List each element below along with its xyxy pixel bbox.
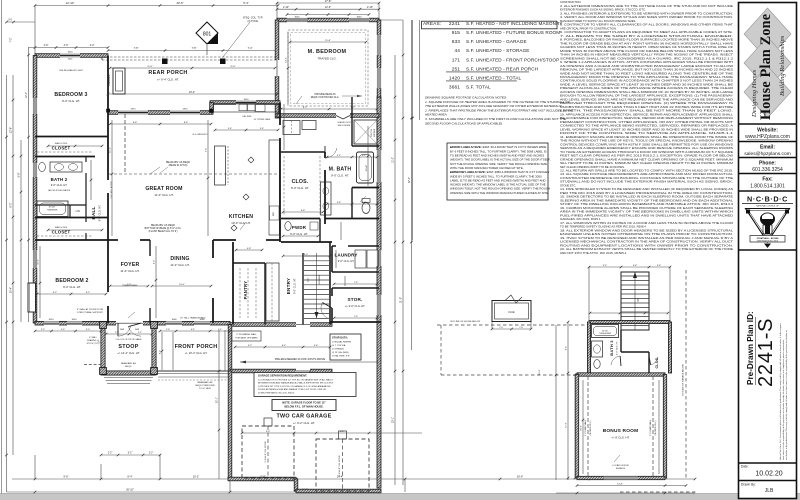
- svg-text:20'-1": 20'-1": [217, 397, 219, 403]
- svg-text:NOTE: GARAGE FLOOR TO BE 12": NOTE: GARAGE FLOOR TO BE 12": [282, 401, 326, 405]
- svg-text:4050: 4050: [68, 52, 74, 54]
- svg-text:16. CARBON MONOXIDE ALARMS SHA: 16. CARBON MONOXIDE ALARMS SHALL BE PROV…: [560, 206, 733, 210]
- storage west wall: [331, 288, 333, 322]
- entry wing west wall / porch side: [228, 325, 232, 372]
- svg-text:TRAYED CLG.: TRAYED CLG.: [317, 57, 336, 61]
- dimension line: [588, 267, 590, 322]
- closet2 dim: [47, 229, 104, 232]
- pwdr dim h: [282, 235, 320, 238]
- svg-text:12'-6": 12'-6": [10, 127, 13, 133]
- svg-text:5'-4": 5'-4": [260, 128, 265, 130]
- garage separation requirement box: [254, 373, 356, 397]
- svg-text:12'-10": 12'-10": [66, 1, 75, 5]
- wall: [577, 476, 665, 479]
- bedroom 3 north exterior wall: [35, 54, 108, 58]
- svg-text:SCREENING SHALL NOT BE CONSIDE: SCREENING SHALL NOT BE CONSIDERED AS A G…: [560, 56, 734, 60]
- svg-text:12'-0": 12'-0": [325, 6, 331, 9]
- svg-text:9'-0"x8'-0" O.H. DOOR: 9'-0"x8'-0" O.H. DOOR: [339, 455, 341, 476]
- svg-text:9'-0": 9'-0": [266, 431, 271, 433]
- svg-text:PWDR: PWDR: [292, 225, 307, 230]
- great room upper dim: [109, 123, 213, 126]
- storage door opening: [331, 296, 333, 308]
- porch wall lower dim chain: [159, 330, 232, 333]
- svg-text:13. ALL SQUARE FOOTAGE MEASURE: 13. ALL SQUARE FOOTAGE MEASUREMENTS ARE …: [560, 172, 734, 176]
- mcloset dim: [283, 104, 286, 150]
- shower south wall: [352, 145, 379, 147]
- porch column 8x8: [162, 59, 168, 65]
- svg-text:JLB: JLB: [765, 488, 774, 494]
- dining opening to kitchen hall: [212, 258, 215, 298]
- svg-text:2241-S: 2241-S: [755, 318, 777, 387]
- interior wall: [331, 246, 333, 272]
- svg-text:3'-8": 3'-8": [362, 202, 367, 204]
- svg-text:TUB/SHWR: TUB/SHWR: [47, 210, 58, 212]
- svg-text:STOOP (TYP): STOOP (TYP): [87, 343, 100, 345]
- svg-text:15'-8": 15'-8": [325, 40, 331, 42]
- svg-text:STORY OF THE DWELLING INCLUDIN: STORY OF THE DWELLING INCLUDING BASEMENT…: [560, 202, 734, 206]
- svg-text:+/- 12'-4" CLG. HT.: +/- 12'-4" CLG. HT.: [117, 351, 140, 355]
- pantry west wall: [232, 242, 234, 325]
- svg-text:37'-4": 37'-4": [408, 177, 411, 183]
- svg-text:4'-2": 4'-2": [90, 44, 95, 47]
- right dim chain 3: [410, 20, 413, 350]
- M bedroom south door opening: [336, 113, 350, 118]
- svg-text:PERMANENT CONSTRUCTION, OTHER: PERMANENT CONSTRUCTION, OTHER APPLIANCES…: [560, 120, 733, 124]
- svg-text:12'-6": 12'-6": [38, 259, 40, 265]
- svg-text:BEDROOM 3: BEDROOM 3: [54, 92, 87, 98]
- M bedroom east exterior wall: [377, 20, 381, 97]
- svg-text:ACCESS OPENING DIMENSIONS SHAL: ACCESS OPENING DIMENSIONS SHALL BE A MIN…: [560, 90, 733, 94]
- svg-text:8'-6": 8'-6": [566, 346, 568, 351]
- entry cabinet bench: [266, 263, 279, 321]
- svg-text:30'-0": 30'-0": [517, 476, 523, 479]
- stoop west wall: [101, 323, 105, 375]
- storage north wall: [332, 287, 379, 289]
- mbedroom interior dim v: [287, 32, 290, 104]
- ceiling fixture diamonds: [248, 157, 254, 163]
- svg-text:13'-6": 13'-6": [286, 57, 288, 63]
- svg-text:Drawn By:: Drawn By:: [741, 483, 756, 487]
- wall: [577, 373, 665, 376]
- wall: [668, 322, 671, 373]
- svg-text:20'-6": 20'-6": [176, 1, 183, 5]
- svg-text:REMOVED THROUGH THE REQUIRED O: REMOVED THROUGH THE REQUIRED OPENING. (2…: [560, 101, 733, 105]
- svg-text:CONSTRUCTION.: CONSTRUCTION.: [560, 0, 581, 4]
- garage floor note box: [272, 400, 336, 411]
- svg-text:House Plan Zone, LLC. has revi: House Plan Zone, LLC. has reviewed plans…: [779, 323, 782, 460]
- svg-text:SHELF & ROD: SHELF & ROD: [55, 143, 68, 145]
- svg-text:2970: 2970: [183, 109, 189, 111]
- svg-text:FIREPLACE: FIREPLACE: [108, 74, 111, 86]
- svg-text:7'-4": 7'-4": [248, 47, 253, 50]
- svg-text:7'-6": 7'-6": [354, 316, 358, 318]
- door and window labels note box: [447, 143, 548, 200]
- svg-text:4'-8": 4'-8": [633, 265, 638, 267]
- svg-text:2970: 2970: [131, 109, 137, 111]
- NCBDC triangle emblem: [746, 209, 790, 243]
- bedroom3 top sub-dim: [28, 46, 109, 49]
- svg-text:PROVIDE BEAM AS: PROVIDE BEAM AS: [314, 93, 336, 96]
- section marker 801 diamond: [196, 22, 218, 44]
- svg-text:14 EQUAL RISERS: 14 EQUAL RISERS: [332, 341, 352, 344]
- M bedroom east window: [377, 35, 382, 55]
- svg-text:2'-2": 2'-2": [138, 332, 142, 334]
- svg-text:CONTROL DEVICES COMPLYING WITH: CONTROL DEVICES COMPLYING WITH ASTM F 20…: [560, 142, 733, 146]
- NCBDC name box: [750, 236, 785, 243]
- bath3 tub: [592, 325, 619, 338]
- bonus knee wall dashed left: [587, 376, 589, 477]
- svg-text:3068: 3068: [120, 329, 124, 331]
- flue box: [492, 301, 531, 322]
- stoop south wall: [103, 371, 154, 375]
- svg-text:+/- 9'-4" CLG. HT.: +/- 9'-4" CLG. HT.: [157, 78, 179, 82]
- interior wall: [621, 351, 649, 353]
- svg-text:Email:: Email:: [760, 145, 775, 151]
- svg-text:BEAM ABV. AS: BEAM ABV. AS: [121, 362, 136, 365]
- kitchen east / m.closet west wall: [279, 103, 281, 243]
- M bedroom east window: [377, 68, 382, 88]
- svg-text:(BEAM IN ATTIC): (BEAM IN ATTIC): [169, 164, 188, 167]
- svg-text:STRUCTURAL SUPPORT: STRUCTURAL SUPPORT: [77, 311, 103, 314]
- svg-text:6" WALL AT POCKET FOR: 6" WALL AT POCKET FOR: [77, 308, 104, 311]
- svg-text:HALL: HALL: [91, 206, 96, 219]
- wall: [575, 375, 578, 479]
- entry bottom dim: [234, 346, 332, 349]
- dimension line: [333, 317, 379, 320]
- m.closet east / m.bath west wall: [324, 152, 326, 224]
- svg-text:16'-0": 16'-0": [539, 369, 541, 375]
- right dim chain 4: [411, 20, 414, 240]
- svg-text:2'-2": 2'-2": [108, 453, 113, 455]
- garage north wall: [230, 369, 332, 373]
- svg-text:GARAGE SEPARATION REQUIREMENT:: GARAGE SEPARATION REQUIREMENT:: [258, 374, 307, 378]
- svg-text:3'-0": 3'-0": [41, 329, 45, 331]
- svg-text:M. BEDROOM: M. BEDROOM: [308, 49, 347, 55]
- stoop corner columns: [100, 322, 107, 329]
- bath3 vanity: [592, 341, 603, 357]
- svg-text:5. CONTRACTOR TO VERIFY ALL CL: 5. CONTRACTOR TO VERIFY ALL CLEARANCES O…: [560, 23, 733, 27]
- svg-text:9'-0" CLG. HT.: 9'-0" CLG. HT.: [294, 278, 297, 294]
- svg-text:5'-0" KNEE WALL: 5'-0" KNEE WALL: [649, 419, 652, 436]
- door: [611, 356, 621, 366]
- interior wall: [648, 352, 650, 373]
- svg-text:BETWEEN HOUSE AND GARAGE AND A: BETWEEN HOUSE AND GARAGE AND ALL WALLS S…: [258, 382, 334, 385]
- svg-text:4. VERIFY ALL DOOR AND WINDOW: 4. VERIFY ALL DOOR AND WINDOW STYLES AND…: [560, 15, 733, 19]
- svg-text:THAN 34 INCHES IN HEIGHT MEASU: THAN 34 INCHES IN HEIGHT MEASURED VERTIC…: [560, 53, 733, 57]
- svg-text:THE FLOOR OR GRADE BELOW AT AN: THE FLOOR OR GRADE BELOW AT ANY POINT WI…: [560, 41, 733, 45]
- kitchen south wall: [213, 239, 280, 241]
- svg-text:TO HAVE AN EXTERIOR ACCESS THR: TO HAVE AN EXTERIOR ACCESS THROUGH A DOO…: [560, 150, 733, 154]
- svg-text:DINING: DINING: [170, 256, 189, 262]
- bedroom 2 front window 3050: [44, 321, 59, 326]
- staircase treads: [304, 253, 329, 318]
- svg-text:4'-6": 4'-6": [61, 329, 65, 331]
- svg-text:FOR BATH UPSTAIRS: FOR BATH UPSTAIRS: [235, 337, 258, 340]
- svg-text:8'-8": 8'-8": [133, 122, 138, 124]
- svg-text:GREAT ROOM: GREAT ROOM: [145, 186, 182, 192]
- svg-text:3'-6": 3'-6": [44, 44, 49, 47]
- great room interior dim: [111, 120, 114, 236]
- svg-text:9'-0" CLG. HT.: 9'-0" CLG. HT.: [338, 259, 355, 263]
- svg-text:TO 10' HDR.: TO 10' HDR.: [199, 388, 212, 390]
- svg-text:19. HVAC SYSTEM TO BE DESIGNED: 19. HVAC SYSTEM TO BE DESIGNED AND INSTA…: [560, 236, 733, 240]
- top dim extension: [378, 3, 380, 20]
- bath2 vanity sinks: [50, 162, 82, 172]
- svg-text:3050: 3050: [357, 17, 363, 19]
- interior wall: [302, 253, 304, 325]
- svg-text:915: 915: [452, 30, 461, 36]
- m.bath garden tub east window: [377, 150, 382, 182]
- svg-text:AN OPENING AND A CLEAR AND UNO: AN OPENING AND A CLEAR AND UNOBSTRUCTED …: [560, 64, 734, 68]
- svg-text:ENGINEER UNLESS NOTED OTHERWIS: ENGINEER UNLESS NOTED OTHERWISE ON THE P…: [560, 232, 733, 236]
- svg-text:9'-0" CLG. HT.: 9'-0" CLG. HT.: [617, 341, 619, 355]
- pantry shelves dashed: [239, 268, 241, 318]
- plumbing wall note box: [232, 331, 261, 341]
- svg-text:11'-2": 11'-2": [110, 147, 112, 153]
- svg-text:REAR PORCH: REAR PORCH: [148, 70, 187, 76]
- foyer-dining column wall lower: [149, 308, 151, 323]
- svg-text:Building Relationships: Building Relationships: [779, 35, 786, 96]
- svg-text:5'-2": 5'-2": [128, 453, 133, 455]
- svg-text:PRESENT ALONG ALL SIDES OF THE: PRESENT ALONG ALL SIDES OF THE APPLIANCE…: [560, 86, 733, 90]
- svg-text:9'-0" CLG. HT.: 9'-0" CLG. HT.: [291, 186, 309, 190]
- svg-text:5'-4": 5'-4": [603, 265, 608, 267]
- foyer cased opening: [118, 239, 140, 242]
- svg-text:4" PLUMBING WALL: 4" PLUMBING WALL: [236, 333, 257, 336]
- door: [649, 356, 658, 365]
- bottom dim ext: [295, 484, 297, 492]
- dimension line: [109, 67, 277, 70]
- porch dim v: [161, 332, 164, 370]
- svg-text:LEVEL WORKING SPACE AT LEAST 3: LEVEL WORKING SPACE AT LEAST 30 INCHES D…: [560, 127, 733, 131]
- svg-text:AND NOT INTO THE ATTIC. IRC 20: AND NOT INTO THE ATTIC. IRC 2015, M1505.…: [560, 251, 627, 255]
- outline of garage below dashed - right: [685, 270, 687, 480]
- west exterior wall: [33, 56, 37, 324]
- kitchen-great room wall jog: [210, 103, 214, 113]
- svg-text:11'-8": 11'-8": [230, 66, 235, 68]
- garage entry door swing: [310, 371, 322, 383]
- m.closet door opening: [279, 125, 282, 138]
- svg-text:2'-10": 2'-10": [283, 6, 289, 9]
- tub dim: [367, 126, 370, 186]
- svg-text:10'-4": 10'-4": [10, 287, 13, 293]
- svg-text:STAIR DATA:: STAIR DATA:: [332, 336, 348, 340]
- NCBDC bottom tick: [764, 244, 771, 249]
- svg-text:PASSAGEWAY FROM THE OPENING TO: PASSAGEWAY FROM THE OPENING TO THE APPLI…: [560, 75, 733, 79]
- garage bays dim: [241, 432, 422, 435]
- svg-text:9'-0" CLG. HT.: 9'-0" CLG. HT.: [98, 204, 102, 221]
- svg-text:CLOS.: CLOS.: [292, 179, 309, 185]
- date box: [739, 462, 797, 464]
- closet2 rod dashed: [37, 235, 92, 237]
- dimension line: [107, 93, 279, 96]
- svg-text:11'-0" CLG. HT.: 11'-0" CLG. HT.: [120, 269, 139, 273]
- svg-text:CONTINUOUS SOLID FLOORING IN A: CONTINUOUS SOLID FLOORING IN ACCORDANCE …: [560, 79, 733, 83]
- svg-text:20. ALL BATHROOM EXHAUST VENTS: 20. ALL BATHROOM EXHAUST VENTS SHALL BE …: [560, 247, 733, 251]
- great room north window 2970 pair: [170, 110, 200, 115]
- svg-text:3'-0": 3'-0": [86, 329, 90, 331]
- column label leader: [223, 22, 250, 57]
- left dim chain 4: [27, 48, 30, 323]
- porch dim v2: [172, 332, 174, 370]
- M bedroom north exterior wall: [277, 18, 379, 22]
- svg-text:7'-5": 7'-5": [134, 47, 139, 50]
- M bedroom top dim chain 1: [276, 2, 381, 5]
- svg-text:251: 251: [452, 66, 461, 72]
- svg-text:1420: 1420: [449, 75, 460, 81]
- svg-text:14 RISERS: 14 RISERS: [319, 274, 321, 285]
- svg-text:STOR.: STOR.: [348, 297, 363, 302]
- svg-text:7'-6": 7'-6": [354, 282, 359, 284]
- svg-text:3050: 3050: [72, 319, 78, 321]
- svg-text:15. SMOKE DETECTORS TO BE INST: 15. SMOKE DETECTORS TO BE INSTALLED IN E…: [560, 195, 733, 199]
- great room north window 2970 pair: [118, 110, 148, 115]
- svg-text:9'-0" CLG. HT.: 9'-0" CLG. HT.: [63, 285, 81, 289]
- svg-text:SHOWER: SHOWER: [374, 128, 376, 137]
- svg-text:BATH 3: BATH 3: [609, 340, 614, 356]
- svg-text:+/- 8' CLG. HT.: +/- 8' CLG. HT.: [611, 436, 630, 440]
- m.bedroom tray ceiling dashed rect: [288, 30, 368, 106]
- fold mark arrows: [738, 21, 746, 31]
- dining front window 3068: [194, 321, 210, 326]
- laundry east window: [377, 250, 382, 266]
- svg-text:NET CLEAR OPENING WIDTH TO BE: NET CLEAR OPENING WIDTH TO BE 20 INCHES.: [560, 165, 625, 169]
- svg-text:10'-0": 10'-0": [179, 284, 185, 286]
- svg-text:CLG. STG. IN TOP OF GABLE: CLG. STG. IN TOP OF GABLE: [115, 338, 142, 341]
- svg-text:AREA IN THE IMMEDIATE VICINITY: AREA IN THE IMMEDIATE VICINITY OF THE BE…: [560, 210, 733, 214]
- svg-text:S.F. UNHEATED - STORAGE: S.F. UNHEATED - STORAGE: [466, 48, 530, 53]
- m.bath vanity: [321, 182, 332, 215]
- m.closet shelves dashed: [283, 156, 285, 215]
- interior wall: [329, 242, 331, 325]
- left top dim chain: [5, 21, 35, 24]
- svg-text:9'-0" CLG. HT.: 9'-0" CLG. HT.: [62, 99, 80, 103]
- top dim extension: [34, 6, 36, 56]
- bath3 toilet: [594, 360, 600, 369]
- svg-text:CONSTRUCTED RESIDENCE OR BUILD: CONSTRUCTED RESIDENCE OR BUILDING. FOOTA…: [560, 176, 733, 180]
- dimension line: [669, 267, 671, 322]
- pantry north wall: [233, 262, 265, 264]
- wall: [589, 320, 670, 323]
- garage south wall right segment: [296, 489, 381, 493]
- svg-text:AREAS:: AREAS:: [423, 21, 441, 27]
- svg-text:ENTRY: ENTRY: [286, 278, 291, 294]
- svg-text:TRANSOM ABV.: TRANSOM ABV.: [122, 284, 138, 287]
- svg-text:+/- 9'-2" CLG. HT.: +/- 9'-2" CLG. HT.: [293, 421, 315, 425]
- shower west wall: [351, 97, 353, 146]
- garage step opening: [296, 368, 310, 373]
- svg-text:WIDE. A LEVEL SERVICE SPACE AT: WIDE. A LEVEL SERVICE SPACE AT LEAST 30 …: [560, 82, 733, 86]
- sheet left edge: [1, 0, 3, 494]
- wall: [587, 322, 590, 373]
- svg-text:CEILING FAN W/ LIGHT: CEILING FAN W/ LIGHT: [59, 69, 84, 72]
- svg-text:BEAM ABV. AS: BEAM ABV. AS: [198, 381, 213, 384]
- svg-text:9'-6": 9'-6": [64, 476, 69, 479]
- svg-text:601.336.3254: 601.336.3254: [752, 167, 783, 173]
- dimension line: [39, 246, 42, 318]
- storage east window: [377, 295, 382, 315]
- svg-text:14. FIRE SPRINKLER SYSTEM TO B: 14. FIRE SPRINKLER SYSTEM TO BE DESIGNED…: [560, 187, 733, 191]
- dimension line: [326, 156, 379, 159]
- M bedroom west wall (porch side): [275, 20, 279, 118]
- dimension line: [280, 108, 379, 111]
- svg-text:5'-4": 5'-4": [243, 1, 249, 5]
- svg-text:ENCLOSURE: ENCLOSURE: [338, 125, 351, 127]
- M bedroom south wall: [277, 114, 379, 118]
- dining east wall: [212, 240, 214, 323]
- bottom dim ext: [229, 420, 231, 492]
- bonus bottom dashes: [620, 491, 697, 493]
- svg-text:8. PORCHES, BALCONIES OR RAISE: 8. PORCHES, BALCONIES OR RAISED FLOOR SU…: [560, 38, 733, 42]
- svg-text:S.F. UNHEATED - TOTAL: S.F. UNHEATED - TOTAL: [466, 75, 521, 80]
- svg-text:20 MIN. FIRE RATED. IRC 2015,: 20 MIN. FIRE RATED. IRC 2015, R302.6: [258, 391, 295, 394]
- water closet west wall: [351, 188, 353, 219]
- svg-text:GRADE OPENINGS SHALL HAVE A MI: GRADE OPENINGS SHALL HAVE A MINIMUM NET …: [560, 157, 734, 161]
- sheet bottom gray strip: [0, 494, 800, 500]
- svg-text:@ 10" EA. (MIN.): @ 10" EA. (MIN.): [332, 351, 349, 354]
- outline of house below dashed - lower: [441, 374, 577, 376]
- foyer north cased opening wall: [108, 239, 150, 241]
- bath 2 west window: [33, 163, 38, 177]
- svg-text:CUSTOM: CUSTOM: [371, 129, 373, 138]
- svg-text:Website:: Website:: [757, 128, 778, 134]
- far left dim chain: [5, 75, 8, 492]
- svg-text:S.F. TOTAL: S.F. TOTAL: [466, 85, 491, 90]
- svg-text:CLG. BRKS AT 9': CLG. BRKS AT 9': [192, 133, 208, 136]
- svg-text:OPENING SIZE WITH THE WINDOW M: OPENING SIZE WITH THE WINDOW MANUFACTURE…: [450, 191, 549, 195]
- interior wall: [620, 330, 622, 352]
- svg-text:ROUTING AND EQUIPMENT LOCATION: ROUTING AND EQUIPMENT LOCATIONS WITH OWN…: [560, 243, 733, 247]
- stoop top dim: [105, 333, 154, 336]
- svg-text:BONUS ROOM: BONUS ROOM: [603, 428, 639, 434]
- linen closet wall: [69, 205, 71, 218]
- svg-text:14'-8": 14'-8": [617, 483, 623, 485]
- svg-text:9'-0" CLG. HT.: 9'-0" CLG. HT.: [290, 232, 308, 236]
- svg-text:12'-2": 12'-2": [392, 157, 395, 163]
- title block divider above website: [739, 123, 797, 125]
- bedroom 2 west window: [33, 250, 38, 268]
- svg-text:TOTAL RISE: 8'-8": TOTAL RISE: 8'-8": [332, 355, 350, 358]
- bonus window south: [604, 476, 638, 479]
- svg-text:LAUNDRY: LAUNDRY: [335, 253, 358, 258]
- kitchen east counter/fridge band: [269, 140, 280, 235]
- svg-text:UNOBSTRUCTED AND NOT LESS THAN: UNOBSTRUCTED AND NOT LESS THAN 6 FEET HI…: [560, 105, 733, 109]
- svg-text:BEDROOM 2: BEDROOM 2: [55, 278, 88, 284]
- svg-text:9'-0" CLG. HT.: 9'-0" CLG. HT.: [331, 174, 349, 178]
- svg-text:7'-5": 7'-5": [192, 47, 197, 50]
- svg-text:MORE THAN 30 INCHES ABOVE THE: MORE THAN 30 INCHES ABOVE THE FLOOR OR G…: [560, 49, 733, 53]
- garage door bay 1 dashed: [242, 426, 294, 478]
- svg-text:9'-0"x8'-0" O.H. DOOR: 9'-0"x8'-0" O.H. DOOR: [265, 441, 267, 462]
- dimension line: [588, 266, 672, 269]
- svg-text:3050: 3050: [244, 99, 250, 101]
- svg-text:NATIONAL COUNCIL OF: NATIONAL COUNCIL OF: [756, 205, 779, 208]
- powder east wall: [319, 219, 321, 243]
- left dim chain 2: [12, 75, 15, 455]
- bottom dim ext: [404, 479, 406, 492]
- svg-text:8'-2": 8'-2": [351, 107, 355, 109]
- svg-text:2. ALL EXTERIOR DIMENSIONS ARE: 2. ALL EXTERIOR DIMENSIONS ARE TO THE OU…: [560, 4, 733, 8]
- svg-text:KITCHEN: KITCHEN: [229, 214, 254, 220]
- kitchen window over sink: [236, 100, 256, 105]
- svg-text:2'-10": 2'-10": [367, 6, 373, 9]
- bottom dim ext: [34, 455, 36, 479]
- powder north wall: [281, 218, 320, 220]
- svg-text:AND LEVEL SERVICE SPACE ARE NO: AND LEVEL SERVICE SPACE ARE NOT REQUIRED…: [560, 97, 733, 101]
- bonus knee wall dashed right: [652, 376, 654, 477]
- hall-greatroom door opening: [107, 180, 110, 193]
- porch column dim chain: [107, 49, 279, 52]
